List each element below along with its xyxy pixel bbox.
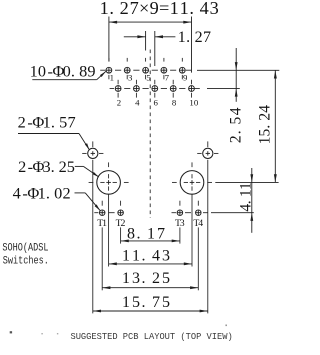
svg-text:1: 1 bbox=[122, 294, 130, 311]
pin numbers row1 bbox=[110, 72, 188, 82]
svg-text:5: 5 bbox=[256, 128, 273, 136]
leader line 2-phi1.57 bbox=[18, 134, 89, 150]
svg-text:2: 2 bbox=[227, 135, 244, 143]
svg-text:0: 0 bbox=[63, 62, 71, 81]
svg-text:1: 1 bbox=[237, 182, 254, 190]
svg-text:9: 9 bbox=[183, 72, 188, 82]
mounting hole phi1.57 left bbox=[82, 141, 103, 158]
svg-text:1: 1 bbox=[102, 218, 107, 229]
text dim 1.27 bbox=[178, 29, 211, 46]
centerline ticks row1 vertical bbox=[109, 58, 182, 79]
extension line T3 column bbox=[179, 227, 181, 243]
svg-text:3: 3 bbox=[132, 270, 140, 287]
dimension line 11.43 bbox=[109, 262, 192, 265]
svg-text:7: 7 bbox=[165, 72, 170, 82]
connector vertical center line bbox=[149, 50, 151, 219]
svg-text:4: 4 bbox=[256, 105, 273, 113]
svg-text:0: 0 bbox=[38, 62, 46, 81]
centerline row1 horizontal dashes bbox=[100, 69, 191, 71]
mounting hole phi1.57 right bbox=[197, 141, 218, 158]
dimension 1.27 arrows and tails bbox=[124, 35, 176, 38]
extension line pin10 column top bbox=[191, 17, 193, 73]
dimension 2.54 vertical bbox=[235, 48, 238, 102]
svg-text:4: 4 bbox=[152, 248, 160, 265]
svg-text:4: 4 bbox=[227, 107, 244, 115]
text label 4-phi1.02 bbox=[13, 184, 71, 203]
svg-text:2: 2 bbox=[120, 0, 129, 18]
extension line phi1.57 right column bbox=[207, 160, 209, 314]
stray mark bottom left bbox=[10, 325, 227, 335]
T row horizontal dashes bbox=[94, 212, 208, 214]
text note SOHO ADSL switches bbox=[2, 241, 49, 268]
svg-text:8: 8 bbox=[127, 225, 135, 242]
svg-text:=: = bbox=[159, 0, 169, 18]
leader line 4-phi1.02 bbox=[75, 193, 101, 211]
svg-text:0: 0 bbox=[194, 98, 199, 108]
svg-text:0: 0 bbox=[54, 184, 62, 203]
hole T4 phi1.02 bbox=[196, 210, 202, 216]
svg-text:5: 5 bbox=[162, 294, 170, 311]
svg-text:4: 4 bbox=[198, 218, 203, 229]
text dim 15.24 rotated bbox=[256, 105, 273, 145]
extension line pin6 column bbox=[154, 31, 156, 66]
text dim 11.43 bbox=[122, 248, 170, 265]
svg-text:Switches.: Switches. bbox=[3, 255, 49, 269]
centerline ticks row2 vertical bbox=[118, 80, 191, 98]
svg-text:4: 4 bbox=[135, 98, 140, 108]
svg-text:.: . bbox=[186, 29, 190, 46]
svg-text:5: 5 bbox=[146, 72, 151, 82]
svg-text:2: 2 bbox=[18, 113, 26, 132]
svg-text:1: 1 bbox=[122, 270, 130, 287]
dimension line 8.17 bbox=[121, 240, 180, 243]
svg-text:.: . bbox=[142, 270, 146, 287]
svg-text:3: 3 bbox=[42, 157, 50, 176]
svg-text:4: 4 bbox=[200, 0, 209, 18]
svg-text:7: 7 bbox=[157, 225, 165, 242]
svg-text:7: 7 bbox=[203, 29, 211, 46]
extension line big circle row right bbox=[215, 181, 278, 183]
big hole phi3.25 left bbox=[89, 162, 129, 194]
big hole phi3.25 right bbox=[172, 162, 212, 194]
text label 10-phi0.89 bbox=[30, 62, 96, 81]
text dim 1.27x9=11.43 bbox=[100, 0, 219, 18]
svg-text:.: . bbox=[137, 225, 141, 242]
svg-text:3: 3 bbox=[210, 0, 219, 18]
svg-text:1: 1 bbox=[122, 248, 130, 265]
svg-text:9: 9 bbox=[87, 62, 95, 81]
svg-text:3: 3 bbox=[128, 72, 133, 82]
svg-text:9: 9 bbox=[150, 0, 159, 18]
pin pad 6 bbox=[152, 86, 158, 92]
hole T1 phi1.02 bbox=[99, 210, 105, 216]
svg-text:1: 1 bbox=[100, 0, 109, 18]
hole T2 phi1.02 bbox=[118, 210, 124, 216]
extension line pin1 column top bbox=[108, 17, 110, 62]
text dim 15.75 bbox=[122, 294, 170, 311]
svg-text:2: 2 bbox=[152, 270, 160, 287]
svg-text:2: 2 bbox=[256, 113, 273, 121]
extension line pin row1 right bbox=[197, 69, 279, 71]
dimension 4.11 vertical bbox=[250, 168, 253, 233]
dimension line 13.25 bbox=[102, 286, 198, 289]
svg-text:1: 1 bbox=[132, 248, 140, 265]
svg-text:×: × bbox=[139, 0, 149, 18]
extension line T2 column bbox=[120, 227, 122, 243]
leader line 10-phi0.89 to pin 1 bbox=[32, 71, 106, 79]
text dim 13.25 bbox=[122, 270, 170, 287]
svg-text:.: . bbox=[142, 248, 146, 265]
svg-text:.: . bbox=[142, 294, 146, 311]
svg-text:.: . bbox=[109, 0, 114, 18]
extension line T4 column bbox=[197, 227, 199, 290]
svg-text:SUGGESTED PCB LAYOUT (TOP VIEW: SUGGESTED PCB LAYOUT (TOP VIEW) bbox=[70, 331, 232, 342]
svg-text:1: 1 bbox=[43, 113, 51, 132]
text label 2-phi1.57 bbox=[18, 113, 76, 132]
extension line big circle left column bbox=[108, 194, 110, 266]
dimension line 15.75 bbox=[93, 310, 208, 313]
extension line big circle right column bbox=[191, 194, 193, 266]
svg-text:1: 1 bbox=[147, 225, 155, 242]
pin pad 3 bbox=[124, 67, 130, 73]
extension line T row right bbox=[211, 212, 254, 214]
pin pad 10 bbox=[189, 86, 195, 92]
pin pad 7 bbox=[161, 67, 167, 73]
extension line pin5 column bbox=[145, 31, 147, 51]
svg-text:5: 5 bbox=[132, 294, 140, 311]
pin pad 5 bbox=[143, 67, 149, 73]
text dim 8.17 bbox=[127, 225, 165, 242]
extension line T1 column bbox=[101, 227, 103, 290]
extension line phi1.57 left column bbox=[92, 160, 94, 314]
svg-text:3: 3 bbox=[180, 218, 185, 229]
dimension line 11.43 top with arrows bbox=[109, 21, 192, 24]
pin pad 9 bbox=[179, 67, 185, 73]
pin pad 8 bbox=[170, 86, 176, 92]
centerline row2 horizontal dashes bbox=[110, 88, 200, 90]
svg-text:2: 2 bbox=[120, 218, 125, 229]
svg-text:.: . bbox=[227, 130, 244, 134]
svg-text:.: . bbox=[51, 113, 55, 132]
text dim 4.11 rotated bbox=[237, 182, 254, 211]
svg-text:5: 5 bbox=[59, 113, 67, 132]
T row ticks above bbox=[102, 201, 198, 206]
text dim 2.54 rotated bbox=[227, 107, 244, 143]
dimension 15.24 vertical bbox=[274, 70, 277, 182]
pin pad 1 bbox=[106, 67, 112, 73]
svg-text:8: 8 bbox=[79, 62, 87, 81]
T hole labels bbox=[97, 218, 203, 229]
svg-text:1: 1 bbox=[170, 0, 179, 18]
svg-text:.: . bbox=[71, 62, 75, 81]
svg-text:2: 2 bbox=[59, 157, 67, 176]
svg-text:1: 1 bbox=[38, 184, 46, 203]
svg-text:6: 6 bbox=[153, 98, 158, 108]
svg-text:7: 7 bbox=[67, 113, 75, 132]
svg-text:2: 2 bbox=[18, 157, 26, 176]
leader line 2-phi3.25 bbox=[75, 166, 99, 177]
svg-text:5: 5 bbox=[162, 270, 170, 287]
svg-text:SOHO(ADSL: SOHO(ADSL bbox=[2, 241, 48, 255]
svg-text:1: 1 bbox=[30, 62, 38, 81]
svg-text:2: 2 bbox=[195, 29, 203, 46]
text caption suggested pcb layout bbox=[70, 331, 232, 342]
svg-text:.: . bbox=[256, 125, 273, 129]
svg-text:3: 3 bbox=[162, 248, 170, 265]
svg-text:1: 1 bbox=[110, 72, 114, 82]
svg-text:5: 5 bbox=[67, 157, 75, 176]
svg-text:.: . bbox=[51, 157, 55, 176]
text label 2-phi3.25 bbox=[18, 157, 75, 176]
svg-text:1: 1 bbox=[178, 29, 186, 46]
svg-text:.: . bbox=[237, 200, 254, 204]
svg-text:2: 2 bbox=[62, 184, 70, 203]
extension line pin row2 right bbox=[207, 87, 240, 89]
svg-text:7: 7 bbox=[152, 294, 160, 311]
svg-text:1: 1 bbox=[180, 0, 189, 18]
svg-text:5: 5 bbox=[227, 117, 244, 125]
svg-text:2: 2 bbox=[117, 98, 121, 108]
svg-text:.: . bbox=[189, 0, 194, 18]
pin pad 2 bbox=[115, 86, 121, 92]
svg-text:8: 8 bbox=[172, 98, 177, 108]
svg-text:7: 7 bbox=[130, 0, 139, 18]
hole T3 phi1.02 bbox=[177, 210, 183, 216]
svg-text:.: . bbox=[46, 184, 50, 203]
pin numbers row2 bbox=[117, 98, 199, 108]
pin pad 4 bbox=[134, 86, 140, 92]
svg-text:1: 1 bbox=[256, 137, 273, 145]
svg-text:4: 4 bbox=[13, 184, 21, 203]
